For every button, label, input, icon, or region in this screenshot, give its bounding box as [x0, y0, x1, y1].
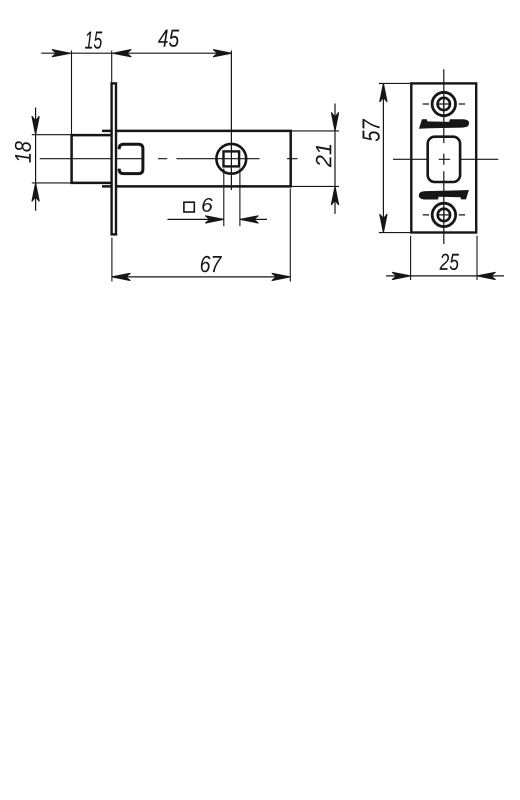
faceplate side view	[112, 83, 116, 234]
arrow at spindle center line	[213, 50, 232, 57]
arrow 25 right	[477, 272, 496, 279]
bottom latch lip (black)	[419, 190, 469, 200]
label 18	[15, 141, 31, 162]
top screw hole inner	[438, 98, 450, 110]
dimension 57 line	[382, 83, 384, 232]
dimension 57 extension lines	[379, 83, 410, 232]
top screw hole outer	[432, 92, 455, 115]
dimension line 15/45	[41, 52, 231, 54]
arrow 67 left	[112, 273, 130, 280]
label 57	[363, 119, 380, 142]
label 67	[201, 256, 222, 272]
top latch lip (black)	[419, 119, 469, 129]
arrow 57 top	[380, 83, 387, 102]
arrow 67 right	[272, 273, 291, 280]
arrow 25 left	[392, 272, 411, 279]
square 6 extension lines	[224, 169, 240, 227]
dimension 25 line	[386, 275, 504, 277]
latch bolt	[72, 135, 111, 183]
bottom screw hole outer	[432, 203, 455, 226]
spindle circle	[216, 144, 246, 174]
spindle square hole	[224, 151, 240, 166]
spindle opening	[428, 137, 460, 182]
bottom screw crosshair	[437, 208, 451, 223]
dimension 18 line	[35, 108, 37, 211]
arrow 57 bottom	[380, 214, 387, 233]
dimension 21 line	[334, 104, 336, 214]
arrow at faceplate front	[113, 50, 132, 57]
spindle vertical extension line	[230, 51, 232, 191]
arrow square6 right	[240, 216, 259, 223]
vertical centerline	[443, 69, 445, 244]
dimension 25 extension lines	[411, 236, 477, 280]
spring bracket	[119, 144, 143, 173]
arrow at bolt front	[52, 50, 71, 57]
centerline horizontal axis	[40, 158, 298, 160]
dimension 21 extension lines	[291, 131, 339, 187]
label 25	[440, 254, 460, 271]
dimension 18 extension lines	[32, 135, 71, 183]
dimension 67 line	[112, 276, 290, 278]
label 21	[316, 145, 332, 168]
top screw side dashes	[423, 103, 465, 105]
arrow 21 top	[331, 112, 338, 131]
bottom screw hole inner	[438, 209, 450, 221]
arrow 21 bottom	[331, 186, 338, 205]
label 15	[85, 32, 102, 49]
horizontal centerline	[393, 158, 498, 160]
extension line bolt front	[71, 51, 73, 135]
label 45	[158, 30, 179, 47]
extension line faceplate front	[111, 51, 113, 83]
arrow square6 left	[205, 216, 224, 223]
faceplate front outline	[411, 83, 476, 232]
label 6	[202, 198, 212, 212]
bottom screw side dashes	[423, 214, 465, 216]
square 6 dimension line left	[168, 218, 224, 220]
square symbol	[184, 202, 194, 212]
square 6 dimension line right	[240, 218, 267, 220]
top screw crosshair	[437, 97, 451, 112]
arrow 18 top	[32, 116, 39, 135]
dimension 67 extension lines	[112, 189, 290, 282]
arrow 18 bottom	[32, 183, 39, 202]
latch case	[102, 131, 291, 187]
